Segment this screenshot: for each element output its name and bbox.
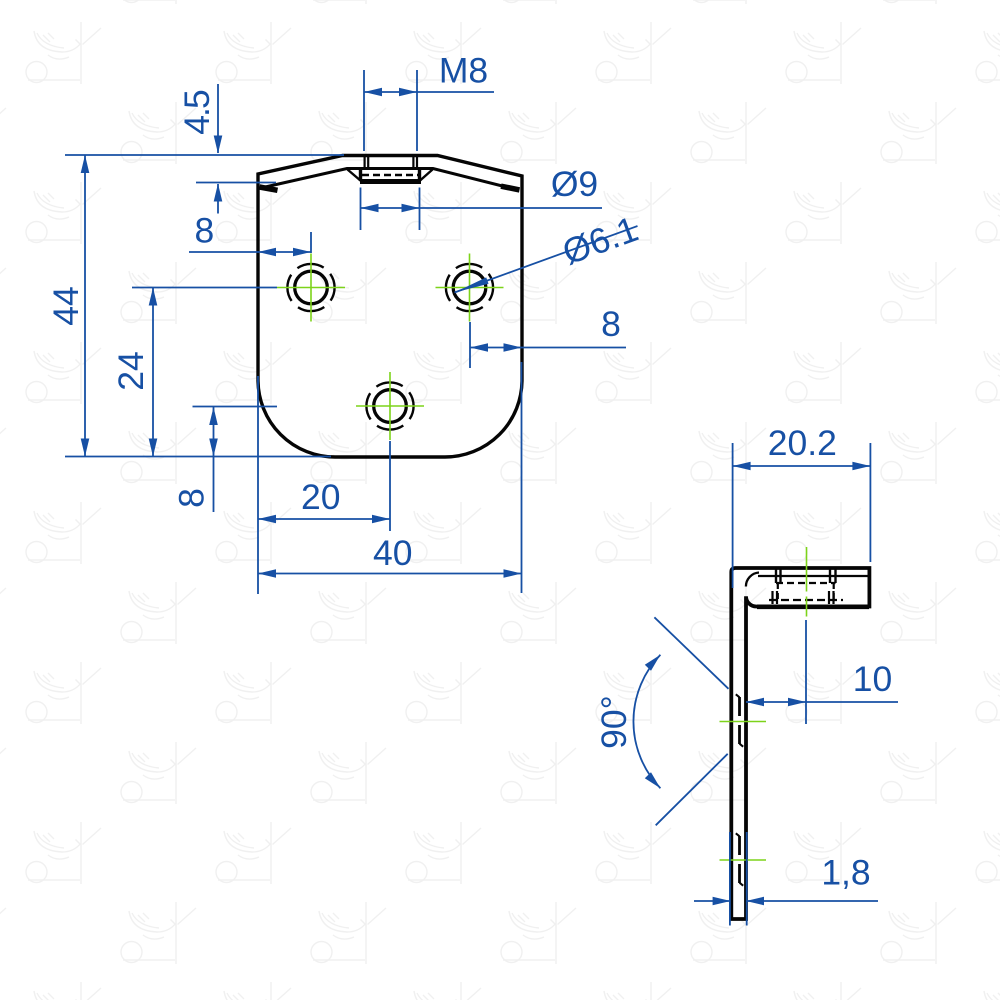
side sheet inner line [758,575,869,577]
dim 90 extension lines [654,617,728,825]
dim 24 arrows [149,288,158,306]
svg-text:20.2: 20.2 [768,423,837,463]
dim 20 extensions [258,376,390,594]
dim 40 line [258,573,522,575]
dim 1,8 arrows [713,897,731,906]
side hidden hole lower [738,836,741,883]
hole H2 centerline cross [436,254,504,322]
side boss lower stubs [773,591,834,604]
tab chamfer lines [348,170,433,182]
dim dia9 arrows [361,204,379,213]
hole H1 left dashed circle [287,264,334,311]
side leg bottom edge overdraw [757,604,869,609]
svg-text:10: 10 [853,659,893,699]
dim dia6.1 leader line [455,226,638,293]
dim 8 right line [470,347,626,349]
dim 8 right extension [469,322,471,368]
side bend inner arc [746,573,759,587]
side hole centerline green upper [720,721,767,723]
side tab hidden line low [769,599,843,601]
dim 10 line [746,701,898,703]
svg-text:M8: M8 [439,51,488,91]
dim 90 arrows [645,652,664,671]
inner contour right wedge [501,186,520,190]
dim 44 line [84,155,86,457]
side tab hidden line mid [776,582,836,584]
plate inner top contour [263,169,516,190]
dim 4.5 arrows [214,136,223,154]
svg-text:4.5: 4.5 [177,89,217,135]
side profile outline [731,568,869,919]
dim M8 arrows [364,88,382,97]
dim M8 line [364,91,494,93]
dim 8 right arrows [470,343,488,352]
side tab hidden verticals [778,583,834,601]
dim 24 extension line [132,287,277,289]
svg-text:44: 44 [46,286,86,326]
side hidden hole upper ticks [736,694,743,746]
dim 44 arrows [81,155,90,173]
dim 20.2 extensions [733,443,871,588]
dim 20.2 arrows [733,462,751,471]
svg-text:1,8: 1,8 [821,853,870,893]
hole H1 centerline cross [277,254,345,322]
inner contour left wedge [260,187,278,190]
dim 44 extension lines [65,155,344,457]
dim 40 extension [521,362,523,593]
side hidden hole lower ticks [736,833,743,885]
dim 40 arrows [258,569,276,578]
tab bottom cap [360,179,421,184]
side hole centerline green lower [720,859,767,861]
hole H3 centerline cross [356,372,424,440]
dim 8 upper-left line [189,251,311,253]
dim 20.2 line [733,465,871,467]
svg-text:40: 40 [373,533,413,573]
dim 90 arc [633,655,660,788]
hole H2 right solid circle [453,271,486,304]
svg-text:90°: 90° [594,695,634,749]
svg-text:8: 8 [172,488,212,508]
svg-text:24: 24 [111,351,151,391]
tab hidden thread dashes [362,174,419,177]
dim 8 upper-left extension [310,232,312,253]
dim 10 extension [805,620,807,724]
dim 8 lower-left arrows [209,407,218,425]
dim dia9 extensions [361,188,420,231]
svg-text:8: 8 [195,211,215,251]
hole H3 bottom solid circle [374,390,407,423]
dim dia9 line [361,207,603,209]
hole H1 left solid circle [295,271,328,304]
dim 24 line [152,288,154,457]
dim 20 arrows [258,515,276,524]
side hidden hole upper [738,697,741,744]
svg-text:20: 20 [301,477,341,517]
tab M8 thread vertical lines [365,156,417,170]
dim 8 lower-left line [193,406,278,512]
side tab thread solid lines [776,570,836,584]
svg-text:8: 8 [601,304,621,344]
svg-text:Ø9: Ø9 [551,164,598,204]
side tab centerline green [806,547,808,617]
plate outline [258,156,522,458]
hole H3 bottom dashed circle [366,382,413,429]
dim 20 line [258,518,390,520]
hole H2 right dashed circle [446,264,493,311]
dim dia6.1 arrow [453,277,488,295]
dim 1,8 extensions [730,832,747,926]
dim 4.5 line [196,84,276,214]
dim 10 arrows [746,698,764,707]
tab counterbore vertical lines [361,170,420,182]
dim 1,8 line [694,900,878,902]
dim M8 extension lines [364,70,417,151]
dim 8 upper-left arrows [258,248,276,257]
